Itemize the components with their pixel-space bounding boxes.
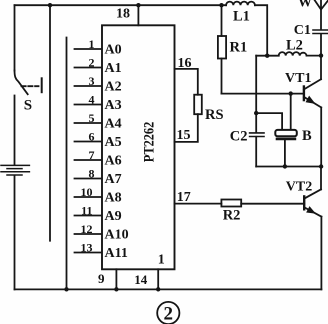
- svg-text:A4: A4: [105, 117, 122, 132]
- svg-text:S: S: [24, 97, 32, 113]
- svg-text:2: 2: [89, 56, 95, 70]
- svg-text:C2: C2: [230, 129, 248, 145]
- svg-text:A0: A0: [105, 43, 122, 58]
- svg-text:VT2: VT2: [286, 180, 312, 195]
- svg-text:16: 16: [178, 56, 192, 71]
- svg-text:A3: A3: [105, 98, 122, 113]
- svg-text:9: 9: [98, 271, 105, 286]
- svg-text:L1: L1: [233, 8, 250, 24]
- svg-text:12: 12: [81, 222, 93, 236]
- svg-text:11: 11: [81, 204, 92, 218]
- svg-text:A5: A5: [105, 135, 122, 150]
- svg-text:A11: A11: [105, 246, 128, 261]
- svg-text:3: 3: [89, 74, 95, 88]
- svg-text:R1: R1: [230, 39, 248, 55]
- svg-text:R2: R2: [223, 208, 241, 224]
- svg-text:W: W: [298, 0, 312, 10]
- svg-text:10: 10: [81, 185, 93, 199]
- svg-text:B: B: [302, 128, 312, 144]
- svg-text:2: 2: [164, 304, 174, 324]
- svg-text:A7: A7: [105, 172, 122, 187]
- svg-text:A1: A1: [105, 61, 122, 76]
- svg-text:C1: C1: [294, 23, 311, 38]
- svg-text:L2: L2: [286, 37, 303, 53]
- svg-text:A6: A6: [105, 154, 122, 169]
- svg-text:RS: RS: [205, 107, 224, 123]
- svg-text:8: 8: [89, 167, 95, 181]
- svg-text:VT1: VT1: [285, 71, 311, 86]
- svg-text:18: 18: [116, 7, 130, 22]
- svg-text:A8: A8: [105, 191, 122, 206]
- svg-text:1: 1: [89, 37, 95, 51]
- svg-text:1: 1: [158, 252, 165, 267]
- svg-text:PT2262: PT2262: [142, 122, 158, 163]
- svg-text:15: 15: [177, 128, 191, 143]
- svg-text:A2: A2: [105, 80, 122, 95]
- svg-text:7: 7: [89, 148, 95, 162]
- svg-text:14: 14: [134, 272, 148, 287]
- svg-text:17: 17: [177, 190, 191, 205]
- svg-text:13: 13: [81, 241, 93, 255]
- svg-text:5: 5: [89, 111, 95, 125]
- svg-text:A9: A9: [105, 209, 122, 224]
- svg-text:4: 4: [89, 93, 95, 107]
- svg-text:A10: A10: [105, 228, 129, 243]
- svg-text:6: 6: [89, 130, 95, 144]
